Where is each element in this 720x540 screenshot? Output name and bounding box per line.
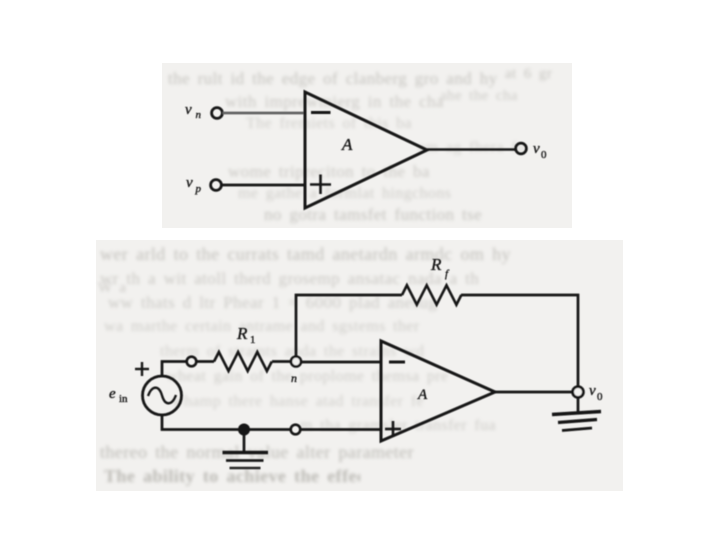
ghost bleed-through text: bottom block <box>100 244 620 265</box>
wire junction to terminal <box>250 428 291 431</box>
svg-text:0: 0 <box>597 391 603 403</box>
terminal after source <box>187 357 197 367</box>
svg-text:v: v <box>185 102 192 118</box>
label Rf <box>430 255 450 280</box>
terminal v_p <box>211 180 222 191</box>
source e_in <box>143 376 182 415</box>
U1 minus pin label <box>311 111 331 114</box>
svg-text:n: n <box>196 109 202 121</box>
terminal v_0 bottom <box>573 387 584 398</box>
svg-text:n: n <box>291 371 297 385</box>
scan block top <box>162 63 572 228</box>
wire node n to op-amp U2 <box>301 361 381 364</box>
U2 gain label A <box>417 387 428 403</box>
label e_in <box>109 386 128 405</box>
svg-text:R: R <box>430 255 442 274</box>
op-amp U2 <box>381 341 495 441</box>
U2 plus pin label <box>385 421 401 437</box>
scan block bottom <box>96 240 623 491</box>
resistor Rf <box>402 285 461 304</box>
wire source bottom <box>162 415 239 430</box>
wire v_n to op-amp U1 <box>223 112 306 115</box>
terminal before U2 plus <box>291 425 301 435</box>
wire R1 to node n <box>272 360 291 363</box>
wire U2 output <box>495 391 573 394</box>
svg-text:v: v <box>589 383 596 399</box>
svg-text:p: p <box>195 183 202 195</box>
svg-text:R: R <box>236 324 248 343</box>
source e_in polarity + <box>135 362 149 376</box>
svg-text:v: v <box>186 175 193 191</box>
source e_in sine <box>148 388 176 404</box>
ground at v_0 <box>552 397 601 431</box>
svg-text:f: f <box>445 268 450 280</box>
resistor R1 <box>214 352 272 371</box>
junction dot <box>238 424 250 436</box>
label R1 <box>236 324 256 346</box>
U1 plus pin label <box>310 175 331 195</box>
svg-text:in: in <box>119 393 128 405</box>
svg-text:v: v <box>533 141 540 157</box>
wire terminal to R1 <box>196 360 214 363</box>
terminal v_n <box>212 108 223 119</box>
label v_0 bottom <box>589 383 603 403</box>
terminal v_0 top <box>516 143 527 154</box>
wire node n up to feedback <box>296 295 402 357</box>
label v_n <box>185 102 202 121</box>
wire source top to terminal <box>162 362 187 377</box>
wire U1 output <box>427 148 516 151</box>
op-amp U1 <box>305 92 427 208</box>
svg-text:A: A <box>417 387 428 403</box>
label n <box>291 371 297 385</box>
U1 gain label A <box>341 135 353 154</box>
label v_p <box>186 175 202 195</box>
node n <box>291 357 301 367</box>
U2 minus pin label <box>389 361 405 364</box>
wire terminal to op-amp U2 plus <box>301 428 382 431</box>
ghost bleed-through text: top block <box>168 69 570 89</box>
svg-text:1: 1 <box>250 334 256 346</box>
svg-text:e: e <box>109 386 116 402</box>
svg-text:0: 0 <box>541 149 547 161</box>
wire Rf to output node <box>461 295 578 387</box>
ground at junction <box>223 434 269 468</box>
wire v_p to op-amp U1 <box>222 184 306 187</box>
label v_0 top <box>533 141 547 161</box>
svg-text:A: A <box>341 135 353 154</box>
